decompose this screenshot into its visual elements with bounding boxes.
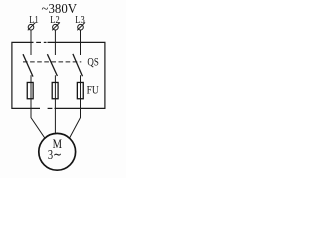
svg-text:FU: FU <box>87 83 99 97</box>
svg-text:QS: QS <box>87 56 98 68</box>
terminal L3 <box>77 22 85 30</box>
wire L2 to switch <box>54 30 56 55</box>
terminal L1 <box>28 22 36 30</box>
wire fuse1 down and bend to motor <box>31 99 45 138</box>
wire fuse2 down to motor <box>54 99 56 133</box>
wire L1 to switch <box>30 30 32 55</box>
fuse FU 1 <box>27 82 33 98</box>
svg-text:3∼: 3∼ <box>48 148 62 163</box>
wire switch3 to fuse3 <box>80 75 82 99</box>
wire fuse3 down and bend to motor <box>70 99 81 138</box>
switch linkage dashed line <box>23 61 81 63</box>
wire L3 to switch <box>80 30 82 55</box>
wire switch1 to fuse1 <box>30 75 32 99</box>
switch QS pole 2 blade <box>47 54 57 76</box>
fuse FU 2 <box>52 82 58 98</box>
switch QS pole 1 blade <box>23 54 33 76</box>
terminal L2 <box>52 22 60 30</box>
fuse FU 3 <box>77 82 83 98</box>
wire switch2 to fuse2 <box>54 75 56 99</box>
enclosure frame <box>12 42 105 108</box>
switch QS pole 3 blade <box>73 54 83 76</box>
motor M circle <box>39 133 76 170</box>
